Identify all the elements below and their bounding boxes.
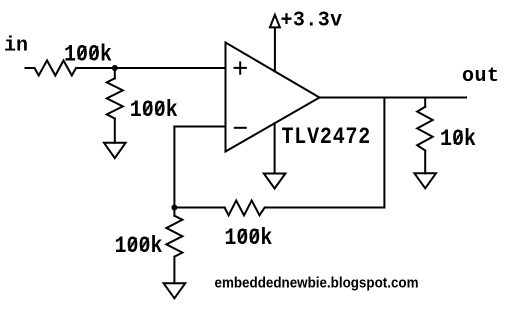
wire output to R5 [424, 98, 426, 107]
wire junction B down [173, 208, 175, 216]
svg-text:100k: 100k [115, 234, 163, 260]
wire +3.3v supply to op-amp [274, 27, 276, 71]
resistor R5 10k (output load, vertical) [417, 107, 433, 151]
op-amp + input marker [235, 62, 246, 73]
wire op-amp - input [174, 126, 225, 128]
svg-text:100k: 100k [64, 42, 112, 68]
label R3 zero slashes [239, 230, 258, 241]
wire R1 to op-amp + input [76, 67, 226, 69]
label R4 100k [115, 234, 163, 260]
resistor R3 100k (feedback, horizontal) [225, 201, 265, 216]
ground (below R5) [414, 173, 436, 188]
wire output [320, 97, 467, 99]
label R3 100k [224, 226, 272, 252]
label R5 zero slash [455, 132, 462, 143]
wire feedback vertical from output [383, 98, 385, 208]
resistor R2 100k (to ground, vertical) [107, 78, 123, 118]
ground (below R4) [164, 283, 186, 298]
label R2 100k [130, 98, 178, 124]
svg-text:100k: 100k [130, 98, 178, 124]
svg-text:out: out [462, 65, 500, 88]
svg-text:embeddednewbie.blogspot.com: embeddednewbie.blogspot.com [215, 274, 419, 291]
label R1 100k [64, 42, 112, 68]
wire op-amp to ground [274, 123, 276, 173]
wire R5 to ground [424, 151, 426, 174]
op-amp - input marker [235, 127, 246, 129]
wire R2 to ground [114, 119, 116, 143]
label R5 10k [440, 127, 476, 153]
wire - input down to junction B [173, 127, 175, 208]
power +3.3v arrow [270, 15, 280, 28]
label R1 zero slashes [79, 47, 98, 58]
wire junction B to R3 [174, 207, 224, 209]
label R4 zero slashes [129, 239, 148, 250]
ground (below R2) [104, 143, 126, 158]
node junction B (dot) [171, 205, 177, 211]
wire feedback horizontal right [265, 207, 385, 209]
wire junction A down [114, 68, 116, 78]
wire R4 to ground [173, 257, 175, 284]
label U1 TLV2472 [282, 125, 372, 151]
svg-text:in: in [4, 35, 28, 58]
label R2 zero slashes [144, 102, 163, 113]
ground (below op-amp) [264, 174, 286, 189]
resistor R1 100k (series input, horizontal) [35, 61, 77, 76]
node junction A (dot) [112, 65, 118, 71]
svg-text:TLV2472: TLV2472 [282, 125, 372, 151]
op-amp U1 TLV2472 [226, 43, 320, 152]
svg-text:+3.3v: +3.3v [281, 9, 343, 33]
wire input left [26, 67, 35, 69]
svg-text:10k: 10k [440, 127, 476, 153]
label +3.3v [281, 9, 343, 33]
svg-text:100k: 100k [224, 226, 272, 252]
resistor R4 100k (to ground, vertical) [166, 216, 182, 257]
